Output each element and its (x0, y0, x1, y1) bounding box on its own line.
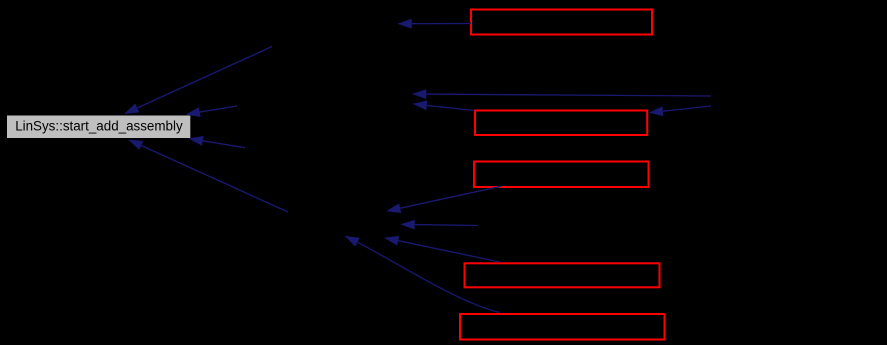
edge E10: hidden node I to hidden node H (short horizontal arrow) (400, 220, 478, 230)
edge E4: box B2 to hidden node C (short diagonal arrow) (413, 101, 475, 111)
caller node box B4 (red border, fourth row) (465, 263, 660, 287)
edge E11: box B4 to hidden node H (diagonal up-left) (384, 236, 500, 262)
caller node box B1 (red border, top) (471, 10, 652, 35)
edge E6: hidden node C to grey node (short arrow upper right) (186, 106, 238, 117)
edge E2: hidden node A to grey node (long diagonal) (124, 47, 272, 115)
edge E7: hidden node F to grey node (short arrow lower right) (189, 136, 246, 148)
svg-text:LinSys::start_add_assembly: LinSys::start_add_assembly (15, 118, 183, 133)
caller node box B3 (red border, third row) (474, 162, 649, 188)
edge E3: hidden node E to hidden node C (long horizontal arrow) (412, 89, 711, 99)
caller node box B5 (red border, bottom) (460, 314, 665, 340)
edge E1: box B1 to hidden node A (horizontal arrow) (397, 19, 471, 29)
edge E9: box B3 to hidden node H (diagonal down-left) (386, 186, 501, 213)
edge E8: hidden node H to grey node (long diagonal from below) (128, 140, 288, 213)
edge E5: hidden node E to box B2 (arrow into right edge of B2) (649, 106, 712, 116)
caller node box B2 (red border, second row) (475, 111, 647, 136)
edge E12: box B5 to hidden node H (curved arrow) (345, 236, 500, 313)
node LinSys::start_add_assembly (current function, grey box) (7, 116, 190, 139)
